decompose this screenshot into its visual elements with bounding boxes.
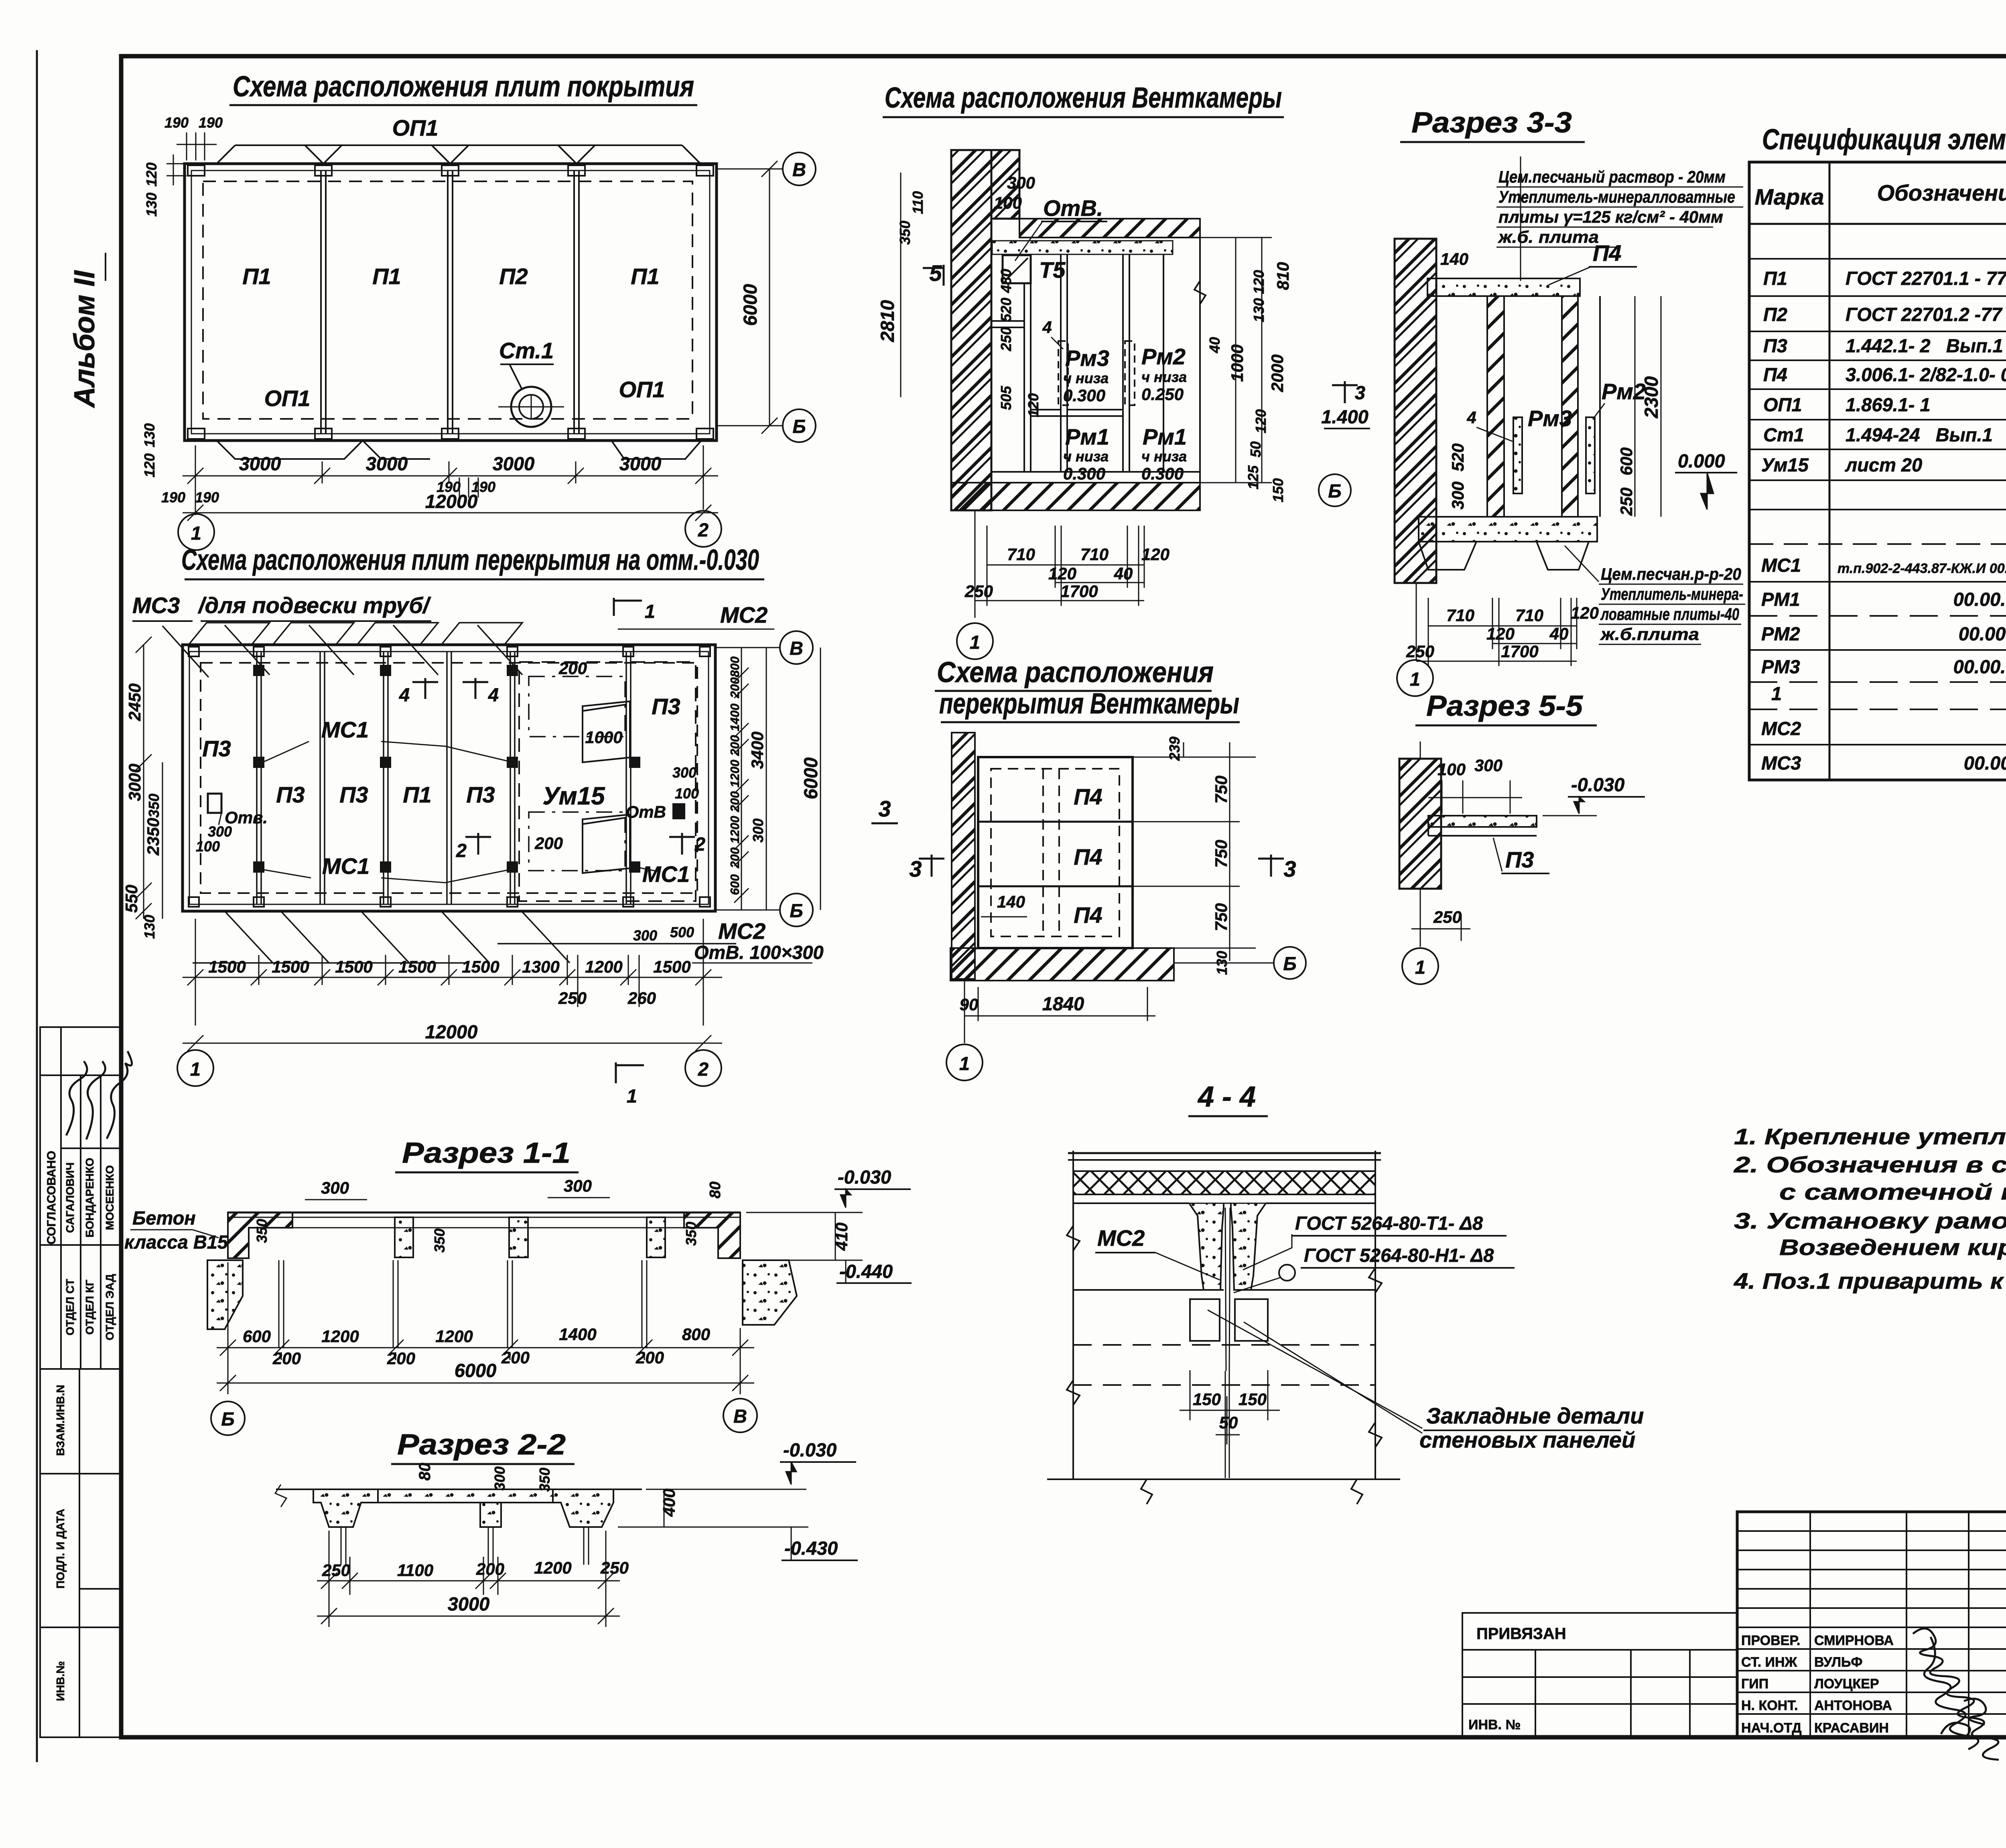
svg-text:1700: 1700	[1060, 582, 1098, 601]
svg-text:Цем.песчан.р-р-20: Цем.песчан.р-р-20	[1601, 565, 1741, 583]
svg-text:ИНВ.№: ИНВ.№	[54, 1661, 67, 1701]
svg-text:200: 200	[728, 677, 742, 699]
wall 5-5	[1399, 759, 1441, 889]
right rib	[1231, 1203, 1266, 1290]
svg-text:710: 710	[1446, 606, 1474, 625]
svg-text:1840: 1840	[1042, 993, 1084, 1014]
svg-text:П4: П4	[1593, 240, 1621, 266]
svg-text:150: 150	[1239, 1390, 1267, 1409]
svg-text:2450: 2450	[125, 683, 144, 721]
svg-text:-0.430: -0.430	[784, 1537, 838, 1559]
svg-text:150: 150	[1193, 1390, 1221, 1409]
svg-text:П1: П1	[242, 264, 271, 289]
svg-text:Б: Б	[1283, 953, 1296, 974]
slab 5-5	[1428, 816, 1537, 827]
svg-text:Рм3: Рм3	[1065, 345, 1109, 371]
svg-text:100: 100	[994, 193, 1022, 212]
svg-text:П2: П2	[1763, 304, 1787, 325]
plan1 bay divider 3	[573, 171, 575, 434]
bottom line det44	[1047, 1478, 1400, 1480]
grid circle B	[717, 425, 783, 426]
svg-text:150: 150	[1270, 478, 1286, 502]
svg-text:ОП1: ОП1	[392, 115, 439, 140]
MC1 connector squares	[253, 665, 640, 873]
right dims 3-3	[1635, 296, 1661, 517]
axis circle 1 vent2	[946, 1044, 983, 1080]
svg-text:1000: 1000	[585, 728, 622, 747]
svg-text:1: 1	[190, 1058, 201, 1080]
mid flange	[378, 1489, 553, 1503]
svg-text:ОП1: ОП1	[1763, 394, 1802, 415]
svg-text:П1: П1	[1763, 268, 1787, 289]
svg-text:140: 140	[997, 892, 1025, 911]
svg-text:Разрез 3-3: Разрез 3-3	[1411, 107, 1572, 139]
section mark 1 top	[614, 598, 642, 616]
svg-text:1200: 1200	[534, 1558, 571, 1577]
svg-text:600: 600	[1617, 447, 1636, 475]
svg-text:1: 1	[1415, 956, 1425, 978]
svg-text:П1: П1	[403, 782, 431, 807]
svg-text:80: 80	[416, 1463, 434, 1481]
svg-text:ч низа: ч низа	[1063, 370, 1109, 386]
row Um15	[1761, 454, 2006, 475]
svg-text:300: 300	[564, 1176, 592, 1195]
svg-text:1200: 1200	[585, 957, 622, 976]
brick wall left 3-3	[1395, 239, 1436, 583]
svg-text:ГОСТ 5264-80-Т1- Δ8: ГОСТ 5264-80-Т1- Δ8	[1295, 1212, 1483, 1234]
svg-text:140: 140	[1440, 250, 1468, 268]
svg-text:2: 2	[456, 840, 467, 861]
svg-text:100: 100	[1437, 760, 1466, 779]
plan1 bay divider 2	[447, 171, 449, 434]
svg-text:КРАСАВИН: КРАСАВИН	[1814, 1720, 1889, 1736]
signatures scribble	[1913, 1629, 1999, 1760]
svg-text:1200: 1200	[728, 816, 742, 844]
svg-text:ИНВ. №: ИНВ. №	[1468, 1717, 1521, 1732]
svg-text:1.869.1- 1: 1.869.1- 1	[1846, 394, 1931, 415]
svg-text:300: 300	[1474, 756, 1502, 775]
svg-text:3: 3	[878, 796, 891, 821]
svg-text:2000: 2000	[1268, 354, 1287, 392]
svg-text:4: 4	[1466, 408, 1476, 427]
svg-text:120: 120	[141, 453, 158, 477]
bottom dims 2-2	[317, 1531, 620, 1627]
svg-text:190: 190	[437, 479, 461, 495]
svg-text:3000: 3000	[125, 764, 144, 801]
svg-text:1500: 1500	[653, 957, 690, 976]
svg-text:6000: 6000	[739, 284, 761, 326]
svg-text:125: 125	[1245, 465, 1261, 489]
left mini grid	[1737, 1512, 2006, 1737]
svg-text:Рм2: Рм2	[1141, 344, 1186, 369]
MC3 hanger trapezoids	[162, 623, 522, 677]
row P3	[1763, 335, 2006, 356]
svg-text:3: 3	[1355, 382, 1365, 403]
dashed plates	[991, 769, 1119, 936]
svg-text:250: 250	[964, 582, 993, 601]
rib verticals below	[279, 1260, 647, 1348]
svg-text:0.300: 0.300	[1063, 386, 1105, 405]
svg-text:350: 350	[897, 221, 913, 245]
row 1 angle	[1771, 683, 2006, 710]
top slab 3-3	[1427, 278, 1580, 296]
svg-text:Н. КОНТ.: Н. КОНТ.	[1741, 1698, 1798, 1713]
svg-text:40: 40	[1549, 624, 1569, 643]
svg-text:520: 520	[998, 298, 1014, 322]
plan1 OP1 trapezoids bottom	[217, 441, 701, 459]
svg-text:190: 190	[164, 114, 189, 131]
svg-text:00.00.09. 00: 00.00.09. 00	[1953, 656, 2006, 677]
svg-text:МС2: МС2	[1097, 1225, 1145, 1251]
svg-text:П3: П3	[202, 736, 231, 761]
svg-text:190: 190	[161, 489, 185, 506]
svg-text:100: 100	[675, 785, 699, 802]
svg-text:МС1: МС1	[321, 717, 369, 742]
bottom dim chain 1-1	[217, 1262, 754, 1394]
svg-text:300: 300	[491, 1466, 508, 1491]
svg-text:МС2: МС2	[1761, 718, 1801, 739]
svg-text:350: 350	[536, 1468, 553, 1492]
svg-text:50: 50	[1247, 441, 1264, 457]
svg-text:П3: П3	[466, 782, 495, 807]
svg-text:2: 2	[698, 1058, 709, 1080]
svg-text:т.п.902-2-443.87-КЖ.И 00.00.05: т.п.902-2-443.87-КЖ.И 00.00.05.00	[1837, 561, 2006, 576]
row RM3	[1761, 656, 2006, 677]
svg-text:200: 200	[558, 659, 587, 678]
svg-text:1400: 1400	[728, 704, 742, 731]
svg-text:0.300: 0.300	[1063, 464, 1105, 483]
svg-text:АНТОНОВА: АНТОНОВА	[1814, 1698, 1892, 1713]
svg-text:П4: П4	[1763, 364, 1787, 385]
svg-text:ОтВ: ОтВ	[626, 802, 666, 821]
opening left	[208, 794, 221, 813]
bottom dims vent2	[964, 981, 1155, 1043]
svg-text:МС3 /для подвески труб/: МС3 /для подвески труб/	[132, 593, 431, 618]
svg-text:200: 200	[272, 1349, 301, 1368]
svg-text:40: 40	[1114, 564, 1133, 583]
svg-text:250: 250	[1406, 642, 1434, 661]
svg-text:1: 1	[970, 632, 980, 653]
svg-text:3: 3	[909, 856, 922, 881]
plan2 dashed slab edge	[201, 663, 697, 893]
monolithic zone dashed	[519, 662, 696, 901]
svg-text:600: 600	[243, 1327, 271, 1346]
svg-text:СОГЛАСОВАНО: СОГЛАСОВАНО	[45, 1151, 58, 1245]
svg-text:ЛОУЦКЕР: ЛОУЦКЕР	[1814, 1676, 1879, 1692]
bottom dims vent1	[975, 510, 1144, 618]
svg-text:260: 260	[627, 989, 656, 1007]
svg-text:РМ3: РМ3	[1761, 656, 1800, 677]
svg-text:4. Поз.1 приварить к Рм3: 4. Поз.1 приварить к Рм3 по контуру .	[1734, 1268, 2006, 1294]
svg-text:1500: 1500	[208, 957, 246, 976]
svg-text:120: 120	[1253, 409, 1269, 433]
privyazan block	[1462, 1613, 1737, 1737]
slab with ribs	[1073, 1203, 1204, 1290]
bottom slab 3-3	[1419, 517, 1597, 542]
wall step top	[991, 150, 1019, 219]
plan2 plate dividers	[257, 652, 631, 904]
roof lines	[1068, 1152, 1381, 1154]
row St1	[1763, 424, 2006, 445]
svg-text:1700: 1700	[1501, 642, 1538, 661]
ceiling plan box	[978, 757, 1133, 948]
svg-text:810: 810	[1273, 262, 1292, 290]
mid rib	[480, 1503, 501, 1527]
svg-text:Бетон: Бетон	[132, 1207, 196, 1229]
svg-text:Закладные детали: Закладные детали	[1426, 1403, 1644, 1428]
svg-text:Б: Б	[1328, 480, 1341, 502]
svg-text:120: 120	[1486, 624, 1515, 643]
svg-text:300: 300	[633, 927, 657, 944]
svg-text:1500: 1500	[272, 957, 309, 976]
spec grid	[1749, 162, 2006, 780]
svg-text:12000: 12000	[425, 1021, 478, 1042]
svg-text:Рм1: Рм1	[1065, 424, 1109, 449]
svg-text:Марка: Марка	[1755, 184, 1824, 209]
svg-text:СМИРНОВА: СМИРНОВА	[1814, 1633, 1894, 1648]
svg-text:НАЧ.ОТД: НАЧ.ОТД	[1741, 1720, 1801, 1736]
svg-text:3. Установку рамок Рм вест: 3. Установку рамок Рм вести совместно с	[1734, 1208, 2006, 1233]
svg-text:400: 400	[660, 1489, 678, 1517]
svg-text:ВУЛЬФ: ВУЛЬФ	[1814, 1655, 1862, 1670]
svg-text:П4: П4	[1074, 784, 1102, 809]
svg-text:120: 120	[1025, 393, 1042, 417]
svg-text:ОП1: ОП1	[264, 386, 311, 411]
grid circle V	[717, 169, 783, 170]
axis circle 1 vent1	[957, 623, 993, 659]
bottom slab strip vent2	[950, 948, 1174, 981]
svg-text:4: 4	[399, 684, 410, 705]
svg-text:Альбом II: Альбом II	[69, 270, 101, 408]
svg-text:1200: 1200	[435, 1327, 473, 1346]
svg-text:1: 1	[959, 1053, 970, 1074]
svg-text:В: В	[792, 159, 806, 180]
svg-text:2. Обозначения в скобках д: 2. Обозначения в скобках даны для вариан…	[1734, 1152, 2006, 1177]
left duct wall	[1487, 296, 1504, 517]
svg-text:лист 20: лист 20	[1845, 454, 1922, 475]
svg-text:с самотечной подачей.: с самотечной подачей.	[1779, 1179, 2006, 1204]
bottom slab strip	[951, 483, 1200, 510]
svg-text:ж.б. плита: ж.б. плита	[1498, 227, 1599, 246]
svg-text:550: 550	[122, 885, 141, 913]
plan1 bay divider 1	[320, 171, 322, 434]
svg-text:перекрытия Венткамеры: перекрытия Венткамеры	[939, 688, 1239, 720]
svg-text:Б: Б	[792, 416, 806, 437]
svg-text:300: 300	[321, 1178, 349, 1197]
svg-text:3: 3	[1283, 856, 1296, 881]
svg-text:1200: 1200	[321, 1327, 359, 1346]
svg-text:Схема расположения плит покрыт: Схема расположения плит покрытия	[233, 71, 694, 103]
svg-text:120: 120	[1571, 603, 1599, 622]
svg-text:класса В15: класса В15	[124, 1231, 228, 1253]
svg-text:190: 190	[199, 114, 223, 131]
svg-text:П3: П3	[1505, 847, 1534, 872]
svg-text:4: 4	[1042, 318, 1052, 337]
rib blocks	[395, 1217, 413, 1257]
dashed floor levels	[1073, 1345, 1375, 1385]
row OP1	[1763, 394, 2006, 415]
svg-text:300: 300	[208, 823, 232, 840]
plan1 dashed slab edge	[203, 181, 692, 419]
svg-text:190: 190	[195, 489, 219, 506]
left boundary	[1072, 1151, 1074, 1479]
row P1	[1763, 268, 2006, 289]
opening windows with flags	[583, 701, 630, 873]
svg-text:МС1: МС1	[642, 861, 690, 887]
svg-text:1.442.1- 2 Вып.1: 1.442.1- 2 Вып.1	[1846, 335, 2003, 356]
svg-text:Рм2: Рм2	[1602, 379, 1646, 404]
svg-text:-0.030: -0.030	[1571, 774, 1624, 795]
chamber right edge	[1199, 238, 1201, 483]
row RM1	[1761, 589, 2006, 610]
svg-text:3000: 3000	[239, 453, 281, 474]
svg-text:Ум15: Ум15	[542, 782, 605, 810]
bottom dim chain 3000 x4	[183, 445, 718, 521]
svg-text:300: 300	[1007, 173, 1035, 192]
svg-text:плиты γ=125 кг/см² - 40мм: плиты γ=125 кг/см² - 40мм	[1498, 207, 1723, 226]
svg-text:3000: 3000	[448, 1593, 490, 1614]
svg-text:САГАЛОВИЧ: САГАЛОВИЧ	[64, 1162, 76, 1233]
seam channel	[1225, 1208, 1226, 1371]
left block 2-2	[313, 1489, 378, 1527]
svg-text:ВЗАМ.ИНВ.N: ВЗАМ.ИНВ.N	[54, 1385, 67, 1456]
svg-text:800: 800	[682, 1325, 710, 1344]
svg-text:120: 120	[1141, 545, 1169, 564]
svg-text:250: 250	[600, 1558, 629, 1577]
row P2	[1763, 304, 2006, 325]
layers note bottom	[1600, 565, 1743, 644]
svg-text:Т5: Т5	[1039, 257, 1066, 282]
wall blocks below	[1190, 1299, 1220, 1341]
rib verticals 2-2	[341, 1527, 589, 1565]
flange underside	[1073, 1202, 1189, 1204]
svg-text:Обозначение: Обозначение	[1877, 180, 2006, 205]
svg-text:П4: П4	[1074, 844, 1102, 869]
svg-text:350: 350	[683, 1222, 699, 1246]
svg-text:239: 239	[1166, 737, 1183, 761]
wall strip vent2	[952, 733, 975, 979]
axis circle 1 plan2	[177, 1050, 213, 1086]
svg-text:1.494-24 Вып.1: 1.494-24 Вып.1	[1846, 424, 1993, 445]
svg-text:800: 800	[728, 656, 742, 677]
svg-text:Рм3: Рм3	[1528, 406, 1572, 431]
svg-text:0.250: 0.250	[1141, 385, 1184, 404]
svg-text:ОтВ. 100×300: ОтВ. 100×300	[694, 942, 824, 963]
svg-text:520: 520	[1448, 443, 1467, 471]
svg-text:Ст.1: Ст.1	[499, 338, 554, 363]
svg-text:Ст1: Ст1	[1763, 424, 1804, 445]
svg-text:1: 1	[1410, 668, 1420, 690]
svg-text:ОтВ.: ОтВ.	[1043, 195, 1103, 221]
svg-text:МОСЕЕНКО: МОСЕЕНКО	[104, 1165, 116, 1230]
svg-text:300: 300	[1448, 481, 1467, 510]
sheet trim line left	[36, 50, 38, 1762]
svg-text:П3: П3	[1763, 335, 1787, 356]
svg-text:ч низа: ч низа	[1141, 369, 1187, 385]
grid circle B vent2	[1274, 947, 1306, 979]
svg-text:0.300: 0.300	[1141, 464, 1184, 483]
svg-text:1500: 1500	[398, 957, 436, 976]
svg-text:П3: П3	[339, 782, 368, 807]
svg-text:МС2: МС2	[720, 602, 767, 628]
svg-text:РМ2: РМ2	[1761, 623, 1800, 644]
svg-text:В: В	[790, 638, 803, 659]
svg-text:505: 505	[998, 386, 1014, 410]
svg-text:МС1: МС1	[322, 853, 370, 879]
right boundary	[1375, 1151, 1376, 1479]
bottom hangers MC2	[193, 911, 736, 963]
axis circle 2 plan2	[685, 1050, 721, 1086]
svg-text:Утеплитель-минера-: Утеплитель-минера-	[1601, 585, 1743, 603]
svg-text:710: 710	[1007, 545, 1035, 564]
svg-text:350: 350	[146, 794, 162, 818]
svg-text:Разрез 5-5: Разрез 5-5	[1426, 690, 1583, 722]
vertical dim 6000 plan1	[769, 169, 770, 426]
grid circle B sec33	[1319, 474, 1351, 506]
svg-text:3400: 3400	[748, 731, 767, 769]
svg-text:МС3: МС3	[1761, 752, 1801, 774]
frame RM3 dashed	[1058, 341, 1068, 405]
svg-text:750: 750	[1212, 840, 1230, 868]
svg-text:Схема расположения Венткамеры: Схема расположения Венткамеры	[885, 82, 1282, 114]
svg-text:МС1: МС1	[1761, 554, 1801, 576]
svg-text:ПРОВЕР.: ПРОВЕР.	[1741, 1633, 1800, 1648]
svg-text:200: 200	[501, 1348, 530, 1367]
svg-text:2: 2	[694, 833, 705, 855]
svg-text:4 - 4: 4 - 4	[1197, 1081, 1256, 1113]
svg-text:6000: 6000	[800, 757, 821, 800]
svg-text:750: 750	[1212, 776, 1230, 804]
svg-text:4: 4	[488, 684, 499, 705]
axis circle 1 sec33	[1397, 660, 1433, 696]
axis circle 1	[178, 514, 214, 550]
svg-text:100: 100	[196, 838, 220, 855]
svg-text:50: 50	[1219, 1413, 1238, 1432]
slab 2-2	[276, 1489, 313, 1490]
svg-text:ловатные плиты-40: ловатные плиты-40	[1600, 605, 1739, 623]
svg-text:3.006.1- 2/82-1.0- 0 Б2: 3.006.1- 2/82-1.0- 0 Б2	[1846, 364, 2006, 385]
svg-text:Спецификация элементов, распол: Спецификация элементов, расположенных на…	[1762, 124, 2006, 156]
svg-text:Возведением кирпичной кладки: Возведением кирпичной кладки.	[1779, 1235, 2006, 1260]
svg-text:2300: 2300	[1641, 376, 1662, 419]
svg-text:480: 480	[998, 269, 1014, 293]
svg-text:250: 250	[1617, 487, 1636, 516]
support wall right	[743, 1260, 797, 1325]
row P4	[1763, 364, 2006, 385]
svg-text:Разрез 2-2: Разрез 2-2	[397, 1429, 566, 1461]
svg-text:П1: П1	[631, 264, 659, 289]
svg-text:300: 300	[672, 764, 696, 781]
interior duct walls	[992, 254, 1200, 472]
margin rotated texts	[45, 1151, 116, 1701]
left end block	[228, 1212, 292, 1258]
plan1 outer wall	[185, 164, 717, 441]
svg-text:80: 80	[707, 1182, 724, 1198]
svg-text:6000: 6000	[455, 1360, 497, 1381]
svg-text:Утеплитель-минералловатные: Утеплитель-минералловатные	[1498, 187, 1735, 206]
svg-text:ОП1: ОП1	[619, 377, 665, 402]
slab flange	[228, 1212, 740, 1214]
svg-text:ч низа: ч низа	[1063, 448, 1109, 465]
row MC3	[1761, 752, 2006, 774]
svg-text:2350: 2350	[144, 818, 162, 855]
svg-text:П4: П4	[1074, 902, 1102, 928]
svg-text:1100: 1100	[397, 1561, 433, 1580]
right dims plan2	[715, 647, 780, 648]
top slab strip	[1019, 219, 1200, 238]
svg-text:1: 1	[1771, 683, 1782, 704]
plan2 edge squares top	[189, 647, 710, 907]
